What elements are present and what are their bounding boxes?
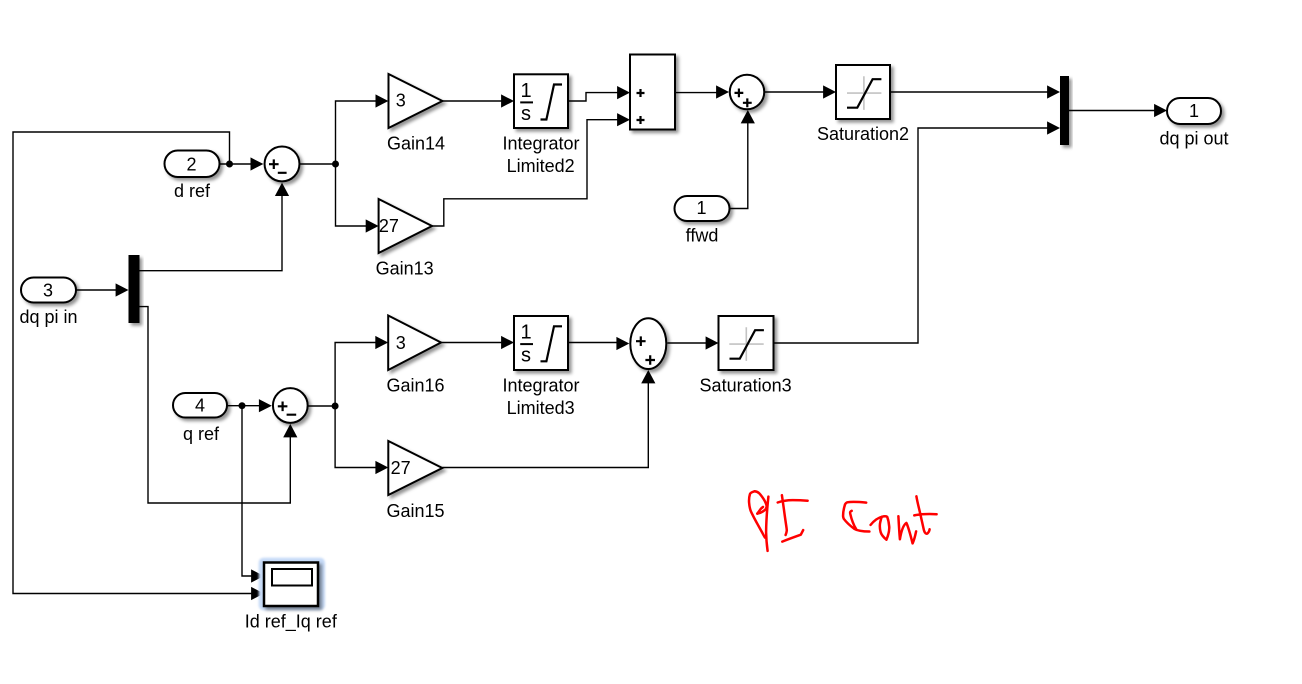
svg-text:d ref: d ref (174, 181, 211, 201)
arrowhead into Saturation3 (706, 336, 719, 349)
red annotation PI Cont (749, 491, 937, 551)
svg-text:q ref: q ref (183, 424, 220, 444)
saturation 3 (719, 316, 774, 370)
wire: Saturation3 up to mux in2 (774, 128, 1051, 343)
wire: branch to Gain14 (336, 101, 379, 164)
scope halo (259, 558, 325, 611)
arrowhead into Gain14 (376, 94, 389, 107)
sum S2 (q ref - feedback) (273, 388, 308, 423)
svg-text:Saturation2: Saturation2 (817, 124, 909, 144)
wire: Gain16 to Integrator3 (441, 342, 504, 344)
svg-text:27: 27 (379, 216, 399, 236)
svg-text:27: 27 (391, 458, 411, 478)
wire: Integrator3 to sum4 (568, 342, 619, 344)
arrowhead into sum3 bottom (741, 110, 755, 123)
svg-text:Gain16: Gain16 (386, 376, 444, 396)
wire: sum1 out to branch node (300, 163, 336, 165)
inport 3 (21, 278, 76, 303)
junction node after sum2 (332, 403, 339, 410)
arrowhead into sum4 bottom (641, 370, 655, 383)
svg-text:3: 3 (396, 91, 406, 111)
arrowhead into Integrator2 (501, 94, 514, 107)
scope block Id ref_Iq ref (264, 563, 318, 607)
arrowhead into scope in1 (251, 569, 264, 582)
junction node after sum1 (332, 161, 339, 168)
mux bar (1060, 76, 1069, 145)
wire: port2 to sum1 (220, 163, 253, 165)
arrowhead into Gain13 (366, 219, 379, 232)
wire: branch d ref up-left-down to scope input2 (13, 132, 252, 594)
arrowhead into Gain15 (375, 461, 388, 474)
saturation 2 (836, 65, 890, 119)
svg-text:Id ref_Iq ref: Id ref_Iq ref (245, 612, 338, 633)
outport 1 (1167, 98, 1221, 124)
wire: sum rect out to sum3 (675, 92, 719, 94)
gain G14 (389, 74, 443, 128)
arrowhead into mux in2 (1047, 121, 1060, 134)
sum S4 (ellipse adder) (630, 318, 666, 369)
wire: sum3 out to Saturation2 (765, 91, 826, 93)
arrowhead into outport (1154, 104, 1167, 117)
svg-text:2: 2 (186, 154, 196, 174)
svg-text:1: 1 (696, 198, 706, 218)
arrowhead into Gain16 (375, 336, 388, 349)
svg-text:Integrator: Integrator (502, 134, 579, 154)
svg-text:ffwd: ffwd (686, 226, 719, 246)
arrowhead into Saturation2 (823, 85, 836, 98)
svg-text:s: s (521, 345, 531, 367)
svg-text:dq pi in: dq pi in (19, 307, 77, 327)
wire: port4 to sum2 (227, 405, 261, 407)
wire: Gain14 to Integrator2 (442, 100, 504, 102)
sum S1 (d ref - feedback) (265, 146, 300, 181)
inport 4 (173, 393, 227, 418)
inport 1 ffwd (675, 196, 730, 221)
svg-text:Gain14: Gain14 (387, 133, 445, 153)
junction node after port2 (226, 161, 233, 168)
svg-text:dq pi out: dq pi out (1159, 129, 1228, 149)
svg-text:3: 3 (396, 333, 406, 353)
svg-text:1: 1 (1189, 101, 1199, 121)
svg-text:1: 1 (520, 80, 531, 102)
demux bar (129, 255, 140, 323)
wire: ffwd port up to sum3 bottom (730, 121, 748, 209)
svg-text:Gain13: Gain13 (376, 258, 434, 278)
gain G13 (379, 199, 432, 253)
arrowhead into demux (116, 283, 129, 296)
svg-text:s: s (521, 103, 531, 125)
arrowhead into sum3 (716, 85, 729, 98)
wire: q ref branch down to scope input1 (242, 406, 252, 576)
sum S3 (ffwd adder) (730, 75, 765, 110)
arrowhead into sum1 (251, 157, 264, 170)
sum rect block (630, 55, 675, 130)
svg-text:3: 3 (43, 280, 53, 300)
wire: branch to Gain16 (335, 343, 378, 407)
arrowhead into sum2 bottom (283, 424, 297, 438)
svg-text:Limited3: Limited3 (507, 398, 575, 418)
gain G16 (388, 316, 441, 371)
wire: port3 to demux (76, 289, 119, 291)
wire: branch to Gain15 (335, 406, 378, 468)
wire: Integrator2 to sum rect in1 (568, 93, 620, 101)
junction node after port4 (239, 402, 246, 409)
svg-text:1: 1 (520, 322, 531, 344)
wire: Saturation2 to mux in1 (890, 91, 1050, 93)
arrowhead into sum4 (616, 337, 629, 350)
gain G15 (388, 441, 442, 495)
arrowhead into sum1 bottom (275, 183, 289, 196)
integrator limited 2 (514, 74, 568, 128)
svg-text:Limited2: Limited2 (507, 156, 575, 176)
wire: demux out2 to sum2 bottom (140, 307, 291, 503)
inport 2 (165, 151, 220, 178)
svg-text:Saturation3: Saturation3 (700, 376, 792, 396)
arrowhead into mux in1 (1047, 85, 1060, 98)
arrowhead into sum2 (259, 399, 272, 412)
arrowhead into scope in2 (251, 587, 264, 600)
arrowhead into sum rect in1 (617, 86, 630, 99)
wire: sum2 out to branch node (307, 405, 335, 407)
arrowhead into sum rect in2 (617, 113, 630, 126)
svg-text:Integrator: Integrator (502, 376, 579, 396)
integrator limited 3 (514, 316, 568, 370)
svg-text:Gain15: Gain15 (386, 501, 444, 521)
wire: Gain13 to sum rect in2 (432, 120, 620, 226)
svg-text:4: 4 (195, 395, 205, 415)
wire: branch to Gain13 (336, 164, 369, 226)
arrowhead into Integrator3 (501, 336, 514, 349)
wire: sum4 out to Saturation3 (667, 342, 708, 344)
wire: Gain15 to sum4 bottom (442, 381, 648, 468)
wire: mux out to outport (1069, 110, 1157, 112)
wire: demux out1 to sum1 bottom (140, 192, 283, 271)
